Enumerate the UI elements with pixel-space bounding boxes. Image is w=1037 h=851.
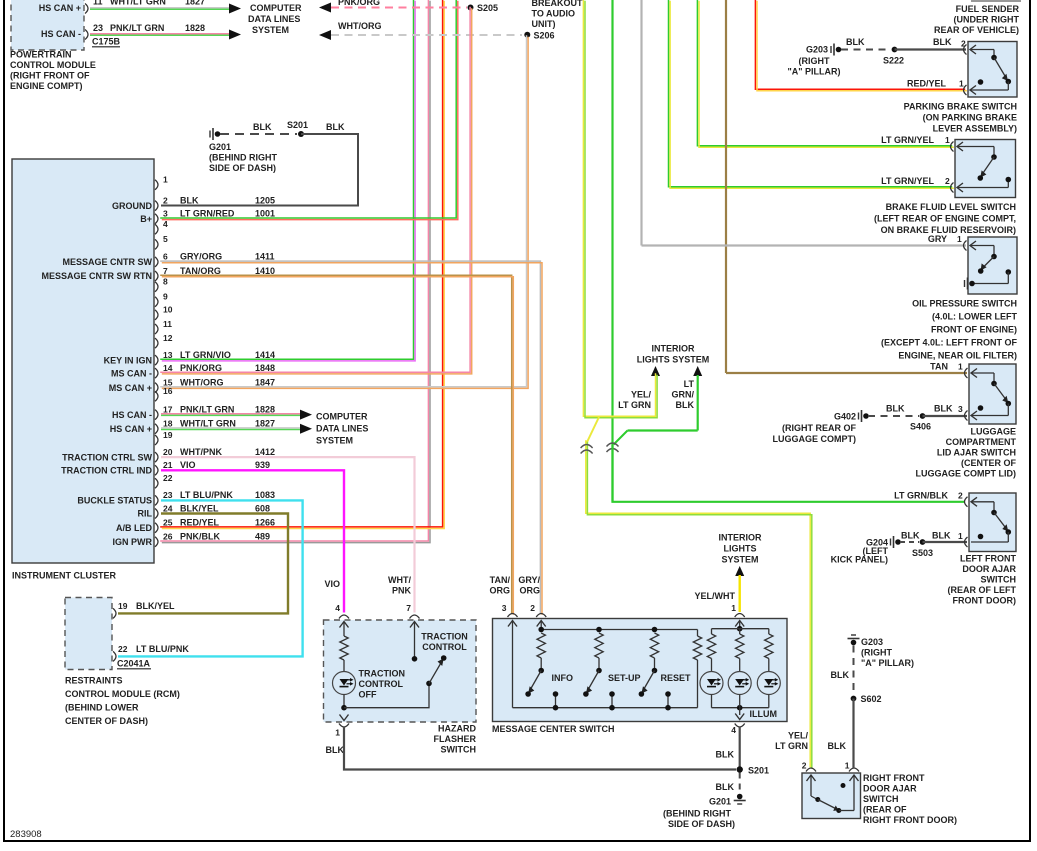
svg-text:19: 19 xyxy=(118,601,128,611)
svg-text:POWERTRAIN: POWERTRAIN xyxy=(10,50,72,60)
wire RED/YEL trunk to parking brake pin 1 xyxy=(755,0,965,89)
svg-text:HS CAN -: HS CAN - xyxy=(41,29,81,39)
svg-text:1: 1 xyxy=(958,362,963,372)
svg-text:1205: 1205 xyxy=(255,195,275,205)
svg-text:REAR OF VEHICLE): REAR OF VEHICLE) xyxy=(934,25,1019,35)
svg-text:RIGHT FRONT DOOR): RIGHT FRONT DOOR) xyxy=(863,815,957,825)
svg-text:1: 1 xyxy=(335,728,340,738)
svg-text:5: 5 xyxy=(163,234,168,244)
cluster pin 13 xyxy=(155,355,158,365)
svg-text:UNIT): UNIT) xyxy=(532,19,556,29)
svg-text:24: 24 xyxy=(163,503,173,513)
splice S205 xyxy=(468,5,474,11)
wire LT GRN/BLK branch to interior lights xyxy=(693,366,702,376)
svg-text:ORG: ORG xyxy=(489,586,510,596)
svg-text:1266: 1266 xyxy=(255,518,275,528)
cluster pin 2 xyxy=(155,201,158,211)
wire GRY to oil pressure pin 1 xyxy=(642,244,967,246)
svg-text:GRY: GRY xyxy=(928,234,947,244)
msg fixed resistor branch xyxy=(693,636,701,660)
svg-text:PNK/BLK: PNK/BLK xyxy=(180,532,220,542)
svg-text:3: 3 xyxy=(502,603,507,613)
svg-text:YEL/: YEL/ xyxy=(631,390,652,400)
svg-text:1828: 1828 xyxy=(185,23,205,33)
splice S201 (lower) xyxy=(737,766,743,772)
hazard internals: LED branch xyxy=(340,622,349,628)
svg-text:BLK/YEL: BLK/YEL xyxy=(136,601,175,611)
svg-text:WHT/LT GRN: WHT/LT GRN xyxy=(110,0,166,7)
cropped box fragment top right xyxy=(971,0,1021,2)
wire TAN trunk to luggage switch pin 1 xyxy=(725,0,727,373)
svg-text:KEY IN IGN: KEY IN IGN xyxy=(104,355,152,365)
msg switch SET-UP xyxy=(596,627,602,633)
svg-text:KICK PANEL): KICK PANEL) xyxy=(831,555,888,565)
svg-text:OIL PRESSURE SWITCH: OIL PRESSURE SWITCH xyxy=(912,299,1017,309)
wire pin20 WHT/PNK to hazard pin 7 xyxy=(161,457,415,612)
svg-text:2: 2 xyxy=(945,176,950,186)
svg-text:YEL/: YEL/ xyxy=(788,731,809,741)
svg-text:A/B LED: A/B LED xyxy=(116,523,153,533)
svg-text:HAZARD: HAZARD xyxy=(438,724,476,734)
msg illumination LEDs xyxy=(735,621,744,627)
cluster pin 9 xyxy=(155,297,158,307)
svg-text:1847: 1847 xyxy=(255,377,275,387)
svg-text:SYSTEM: SYSTEM xyxy=(252,25,289,35)
wire RED/YEL trunk + pin 25 xyxy=(160,0,442,527)
svg-text:ENGINE, NEAR OIL FILTER): ENGINE, NEAR OIL FILTER) xyxy=(898,351,1017,361)
svg-text:S201: S201 xyxy=(748,766,769,776)
svg-text:TRACTION CTRL IND: TRACTION CTRL IND xyxy=(61,466,152,476)
svg-text:PNK/ORG: PNK/ORG xyxy=(338,0,380,7)
svg-text:BLK: BLK xyxy=(326,122,345,132)
border frame xyxy=(3,0,5,841)
svg-text:BLK: BLK xyxy=(676,400,695,410)
cluster pin 3 xyxy=(155,214,158,224)
door switch internals xyxy=(807,775,816,781)
left front door switch box xyxy=(969,493,1016,552)
luggage switch box xyxy=(969,364,1016,424)
msg LED at x=711.5 xyxy=(711,629,713,634)
svg-text:2: 2 xyxy=(958,491,963,501)
hazard pin 1 xyxy=(340,715,349,721)
svg-text:7: 7 xyxy=(163,266,168,276)
hazard flasher switch box xyxy=(324,620,477,722)
svg-text:939: 939 xyxy=(255,460,270,470)
svg-text:S201: S201 xyxy=(287,120,308,130)
svg-text:TAN/ORG: TAN/ORG xyxy=(180,266,221,276)
brake fluid internals xyxy=(957,142,963,151)
svg-text:G402: G402 xyxy=(834,412,856,422)
svg-text:FRONT DOOR): FRONT DOOR) xyxy=(953,596,1017,606)
svg-text:PNK: PNK xyxy=(392,586,412,596)
oil pressure internal ground xyxy=(964,280,966,287)
msg ILLUM output pin 4 xyxy=(739,708,741,715)
svg-text:SWITCH: SWITCH xyxy=(863,794,899,804)
svg-text:1410: 1410 xyxy=(255,266,275,276)
wire BLK S503 to door pin 1 xyxy=(923,541,968,543)
svg-text:FUEL SENDER: FUEL SENDER xyxy=(956,4,1020,14)
svg-text:RESET: RESET xyxy=(661,673,692,683)
breakout to audio unit riser xyxy=(31,0,529,1)
svg-text:1828: 1828 xyxy=(255,404,275,414)
svg-text:(BEHIND RIGHT: (BEHIND RIGHT xyxy=(663,809,731,819)
wire pin18 WHT/LT GRN to arrow xyxy=(161,427,300,429)
svg-text:G203: G203 xyxy=(861,637,883,647)
svg-text:2: 2 xyxy=(802,761,807,771)
svg-text:TRACTION CTRL SW: TRACTION CTRL SW xyxy=(62,452,152,462)
svg-text:S406: S406 xyxy=(910,422,931,432)
msg switch INFO xyxy=(538,627,544,633)
svg-text:RED/YEL: RED/YEL xyxy=(180,518,220,528)
ground G201 (behind right side of dash) xyxy=(209,131,211,138)
splice S503 xyxy=(920,539,926,545)
wire WHT/ORG dashed to S206 xyxy=(319,30,331,40)
svg-text:BLK: BLK xyxy=(326,745,345,755)
svg-text:LEFT FRONT: LEFT FRONT xyxy=(960,554,1016,564)
svg-text:GRY/ORG: GRY/ORG xyxy=(180,252,222,262)
svg-text:(CENTER OF: (CENTER OF xyxy=(961,458,1017,468)
svg-text:11: 11 xyxy=(93,0,103,7)
svg-text:26: 26 xyxy=(163,532,173,542)
cluster pin 18 xyxy=(155,424,158,434)
svg-text:PNK/LT GRN: PNK/LT GRN xyxy=(110,23,164,33)
svg-text:BREAKOUT: BREAKOUT xyxy=(532,0,584,8)
svg-text:S222: S222 xyxy=(883,56,904,66)
svg-text:BLK: BLK xyxy=(886,404,905,414)
svg-text:23: 23 xyxy=(93,23,103,33)
svg-text:G201: G201 xyxy=(709,797,731,807)
svg-text:LT GRN/RED: LT GRN/RED xyxy=(180,209,235,219)
svg-text:LIGHTS SYSTEM: LIGHTS SYSTEM xyxy=(637,355,710,365)
cluster pin 14 xyxy=(155,368,158,378)
svg-text:ORG: ORG xyxy=(519,586,540,596)
svg-text:INFO: INFO xyxy=(552,673,574,683)
svg-text:GRY/: GRY/ xyxy=(518,575,540,585)
svg-text:LID AJAR SWITCH: LID AJAR SWITCH xyxy=(937,448,1016,458)
svg-text:BLK: BLK xyxy=(831,670,850,680)
svg-text:BLK: BLK xyxy=(180,195,199,205)
svg-text:CONTROL MODULE: CONTROL MODULE xyxy=(10,60,96,70)
svg-text:LUGGAGE COMPT LID): LUGGAGE COMPT LID) xyxy=(916,469,1017,479)
cluster pin 12 xyxy=(155,338,158,348)
svg-text:TAN: TAN xyxy=(930,362,948,372)
svg-text:ILLUM: ILLUM xyxy=(750,709,778,719)
svg-text:LT GRN/YEL: LT GRN/YEL xyxy=(881,176,934,186)
svg-text:1: 1 xyxy=(945,135,950,145)
svg-text:ENGINE COMPT): ENGINE COMPT) xyxy=(10,81,83,91)
svg-text:FLASHER: FLASHER xyxy=(434,734,477,744)
svg-text:14: 14 xyxy=(163,363,173,373)
svg-text:TRACTION: TRACTION xyxy=(421,632,468,642)
svg-text:10: 10 xyxy=(163,305,173,315)
svg-text:VIO: VIO xyxy=(180,460,196,470)
svg-text:BLK: BLK xyxy=(846,37,865,47)
svg-text:LIGHTS: LIGHTS xyxy=(724,544,757,554)
wire LT GRN/YEL trunk to brake fluid pin 1 xyxy=(697,0,952,146)
svg-text:(RIGHT: (RIGHT xyxy=(799,56,830,66)
svg-text:HS CAN +: HS CAN + xyxy=(39,3,81,13)
wire LT GRN/RED trunk + pin 3 xyxy=(160,0,456,218)
splice S206 xyxy=(524,32,530,38)
cluster pin 10 xyxy=(155,310,158,320)
svg-text:SWITCH: SWITCH xyxy=(441,745,477,755)
svg-text:16: 16 xyxy=(163,386,173,396)
wire BLK dashed G201 to S201 xyxy=(220,133,297,135)
svg-text:BLK: BLK xyxy=(253,122,272,132)
svg-text:WHT/: WHT/ xyxy=(388,575,411,585)
svg-text:(LEFT REAR OF ENGINE COMPT,: (LEFT REAR OF ENGINE COMPT, xyxy=(874,214,1016,224)
cluster pin 24 xyxy=(155,509,158,519)
RCM pin 22 xyxy=(113,651,116,661)
svg-text:1848: 1848 xyxy=(255,363,275,373)
svg-text:CONTROL: CONTROL xyxy=(359,679,404,689)
svg-text:DOOR AJAR: DOOR AJAR xyxy=(962,564,1016,574)
wire BLK hazard pin1 to S201 xyxy=(344,727,736,770)
svg-text:1: 1 xyxy=(959,79,964,89)
wire PNK/ORG from S205 to pin 14 xyxy=(160,7,470,373)
cluster pin 1 xyxy=(155,180,158,190)
svg-text:S602: S602 xyxy=(861,694,882,704)
oil pressure switch box xyxy=(968,237,1017,294)
svg-text:22: 22 xyxy=(118,644,128,654)
svg-text:RIL: RIL xyxy=(138,509,153,519)
svg-text:BRAKE FLUID LEVEL SWITCH: BRAKE FLUID LEVEL SWITCH xyxy=(886,202,1016,212)
wire LT GRN/BLK trunk to left front door switch xyxy=(611,0,613,502)
svg-text:12: 12 xyxy=(163,333,173,343)
svg-text:1827: 1827 xyxy=(185,0,205,7)
svg-text:3: 3 xyxy=(163,209,168,219)
svg-text:G201: G201 xyxy=(209,142,231,152)
svg-text:BLK: BLK xyxy=(933,37,952,47)
svg-text:BLK: BLK xyxy=(901,531,920,541)
svg-text:LT GRN/BLK: LT GRN/BLK xyxy=(894,491,948,501)
svg-text:HS CAN +: HS CAN + xyxy=(110,424,152,434)
svg-text:LT BLU/PNK: LT BLU/PNK xyxy=(180,490,233,500)
svg-text:C175B: C175B xyxy=(92,37,121,47)
svg-text:ON BRAKE FLUID RESERVOIR): ON BRAKE FLUID RESERVOIR) xyxy=(881,225,1016,235)
hazard internals: switch xyxy=(344,683,429,707)
svg-text:9: 9 xyxy=(163,292,168,302)
svg-text:25: 25 xyxy=(163,518,173,528)
splice S602 xyxy=(851,696,857,702)
svg-text:MESSAGE CENTER SWITCH: MESSAGE CENTER SWITCH xyxy=(492,724,615,734)
svg-text:1: 1 xyxy=(731,603,736,613)
svg-text:(BEHIND LOWER: (BEHIND LOWER xyxy=(65,703,139,713)
svg-text:WHT/PNK: WHT/PNK xyxy=(180,447,222,457)
svg-text:SYSTEM: SYSTEM xyxy=(316,436,353,446)
wire BLK dashed G203 to S602 xyxy=(853,646,855,695)
svg-text:SET-UP: SET-UP xyxy=(608,673,641,683)
svg-text:(EXCEPT 4.0L: LEFT FRONT OF: (EXCEPT 4.0L: LEFT FRONT OF xyxy=(881,338,1018,348)
svg-text:CONTROL MODULE (RCM): CONTROL MODULE (RCM) xyxy=(65,689,180,699)
svg-text:13: 13 xyxy=(163,350,173,360)
RCM pin 19 xyxy=(113,608,116,618)
svg-text:GRN/: GRN/ xyxy=(672,390,695,400)
svg-text:MS CAN -: MS CAN - xyxy=(111,368,152,378)
svg-text:1827: 1827 xyxy=(255,419,275,429)
svg-text:TAN/: TAN/ xyxy=(490,575,511,585)
msg LED at x=768.8 xyxy=(768,629,770,634)
svg-text:WHT/ORG: WHT/ORG xyxy=(180,377,224,387)
svg-text:HS CAN -: HS CAN - xyxy=(112,410,152,420)
svg-text:21: 21 xyxy=(163,460,173,470)
svg-text:COMPUTER: COMPUTER xyxy=(316,412,368,422)
instrument cluster box xyxy=(12,159,154,563)
msg internals: pin2 feed rail xyxy=(537,621,546,627)
svg-text:MESSAGE CNTR SW: MESSAGE CNTR SW xyxy=(62,257,152,267)
svg-text:(RIGHT REAR OF: (RIGHT REAR OF xyxy=(782,423,856,433)
wire YEL/WHT msg pin1 to interior lights xyxy=(735,566,744,576)
svg-text:RESTRAINTS: RESTRAINTS xyxy=(65,676,123,686)
wire BLK dashed G402 to S406 xyxy=(868,415,919,417)
svg-text:"A" PILLAR): "A" PILLAR) xyxy=(787,67,840,77)
msg internals: pin3 return rail xyxy=(508,621,517,627)
svg-text:7: 7 xyxy=(406,603,411,613)
svg-text:WHT/LT GRN: WHT/LT GRN xyxy=(180,419,236,429)
cluster pin 8 xyxy=(155,282,158,292)
svg-text:SYSTEM: SYSTEM xyxy=(721,555,758,565)
svg-text:MESSAGE CNTR SW RTN: MESSAGE CNTR SW RTN xyxy=(41,271,152,281)
cluster pin 7 xyxy=(155,271,158,281)
wire LT GRN/BLK down to left front door pin 2 xyxy=(613,445,966,502)
svg-text:BLK: BLK xyxy=(716,782,735,792)
wire PNK/BLK trunk + pin 26 xyxy=(160,0,428,541)
svg-text:BLK: BLK xyxy=(828,741,847,751)
svg-text:BUCKLE STATUS: BUCKLE STATUS xyxy=(77,496,152,506)
svg-text:LUGGAGE: LUGGAGE xyxy=(970,427,1016,437)
msg switch RESET xyxy=(652,627,658,633)
svg-text:SIDE OF DASH): SIDE OF DASH) xyxy=(209,163,276,173)
svg-text:PNK/ORG: PNK/ORG xyxy=(180,363,222,373)
svg-text:RED/YEL: RED/YEL xyxy=(907,79,947,89)
powertrain control module box xyxy=(11,0,84,50)
svg-text:4: 4 xyxy=(163,219,168,229)
svg-text:(REAR OF: (REAR OF xyxy=(863,805,907,815)
svg-text:TO AUDIO: TO AUDIO xyxy=(532,9,576,19)
svg-text:LEVER ASSEMBLY): LEVER ASSEMBLY) xyxy=(933,124,1017,134)
svg-text:INTERIOR: INTERIOR xyxy=(718,533,762,543)
oil pressure internals xyxy=(970,241,976,250)
splice S222 xyxy=(892,47,898,53)
svg-text:PNK/LT GRN: PNK/LT GRN xyxy=(180,404,234,414)
cluster pin 23 xyxy=(155,495,158,505)
svg-text:OFF: OFF xyxy=(359,690,377,700)
svg-text:1: 1 xyxy=(163,175,168,185)
svg-text:BLK: BLK xyxy=(716,750,735,760)
svg-text:BLK/YEL: BLK/YEL xyxy=(180,503,219,513)
svg-text:(UNDER RIGHT: (UNDER RIGHT xyxy=(954,15,1020,25)
svg-text:2: 2 xyxy=(530,603,535,613)
svg-text:BLK: BLK xyxy=(932,531,951,541)
svg-text:LT: LT xyxy=(684,379,695,389)
wire LT GRN/VIO trunk + pin 13 xyxy=(160,0,413,359)
svg-text:1412: 1412 xyxy=(255,447,275,457)
svg-text:1: 1 xyxy=(845,761,850,771)
svg-text:MS CAN +: MS CAN + xyxy=(109,383,152,393)
svg-text:17: 17 xyxy=(163,404,173,414)
cluster pin 21 xyxy=(155,465,158,475)
svg-text:IGN PWR: IGN PWR xyxy=(113,537,153,547)
svg-text:PARKING BRAKE SWITCH: PARKING BRAKE SWITCH xyxy=(904,102,1017,112)
svg-text:(BEHIND RIGHT: (BEHIND RIGHT xyxy=(209,153,277,163)
message center switch box xyxy=(493,619,788,722)
ground G201 (lower) xyxy=(737,794,743,800)
svg-text:1083: 1083 xyxy=(255,490,275,500)
wire GRY trunk to oil pressure switch xyxy=(640,0,642,246)
cluster pin 6 xyxy=(155,257,158,267)
svg-text:3: 3 xyxy=(958,404,963,414)
wire pin23 LT BLU/PNK to RCM pin 22 xyxy=(118,500,303,656)
cluster pin 22 xyxy=(155,478,158,488)
wire WHT/ORG from S206 to pin 15 xyxy=(160,35,526,387)
luggage internals xyxy=(971,369,977,378)
svg-text:YEL/WHT: YEL/WHT xyxy=(695,591,736,601)
svg-text:1414: 1414 xyxy=(255,350,275,360)
svg-text:11: 11 xyxy=(163,319,172,329)
svg-text:2: 2 xyxy=(961,39,966,49)
svg-text:1: 1 xyxy=(957,234,962,244)
svg-text:22: 22 xyxy=(163,473,173,483)
wire pin6 GRY/ORG to message center pin 2 xyxy=(160,261,540,613)
svg-text:2: 2 xyxy=(163,195,168,205)
svg-text:INTERIOR: INTERIOR xyxy=(651,344,695,354)
wire pin24 BLK/YEL to RCM pin 19 xyxy=(118,514,288,614)
svg-text:283908: 283908 xyxy=(10,829,42,840)
svg-text:CONTROL: CONTROL xyxy=(422,642,467,652)
cluster pin 20 xyxy=(155,452,158,462)
svg-text:19: 19 xyxy=(163,430,173,440)
svg-text:DATA LINES: DATA LINES xyxy=(248,14,300,24)
svg-text:LUGGAGE COMPT): LUGGAGE COMPT) xyxy=(773,434,857,444)
svg-text:489: 489 xyxy=(255,532,270,542)
svg-text:1: 1 xyxy=(958,531,963,541)
cluster pin 11 xyxy=(155,324,158,334)
svg-text:RIGHT FRONT: RIGHT FRONT xyxy=(863,773,925,783)
svg-text:4: 4 xyxy=(731,725,736,735)
wire BLK S406 to luggage pin 3 xyxy=(923,415,968,417)
splice S406 xyxy=(920,413,926,419)
wire YEL/LT GRN branch to interior lights xyxy=(651,366,660,376)
svg-text:COMPUTER: COMPUTER xyxy=(250,3,302,13)
svg-text:LT BLU/PNK: LT BLU/PNK xyxy=(136,644,189,654)
svg-text:8: 8 xyxy=(163,277,168,287)
svg-text:COMPARTMENT: COMPARTMENT xyxy=(946,437,1017,447)
svg-text:DATA LINES: DATA LINES xyxy=(316,424,368,434)
cluster pin 4 xyxy=(155,224,158,234)
svg-text:S205: S205 xyxy=(477,3,498,13)
cluster pin 25 xyxy=(155,523,158,533)
cluster pin 16 xyxy=(155,391,158,401)
svg-text:4: 4 xyxy=(335,603,340,613)
cluster pin 5 xyxy=(155,239,158,249)
brake fluid level switch box xyxy=(955,140,1016,198)
svg-text:(4.0L: LOWER LEFT: (4.0L: LOWER LEFT xyxy=(932,312,1017,322)
cluster pin 15 xyxy=(155,383,158,393)
wire YEL/LT GRN diagonal + down to door xyxy=(587,417,599,443)
wire BLK msg pin4 to S201 xyxy=(739,727,741,767)
svg-text:LT GRN/YEL: LT GRN/YEL xyxy=(881,135,934,145)
wire LT GRN/YEL trunk to brake fluid pin 2 xyxy=(669,0,953,187)
svg-text:(REAR OF LEFT: (REAR OF LEFT xyxy=(948,585,1017,595)
svg-text:608: 608 xyxy=(255,503,270,513)
svg-text:TRACTION: TRACTION xyxy=(359,669,406,679)
svg-text:(RIGHT: (RIGHT xyxy=(861,648,892,658)
restraints control module box xyxy=(65,598,112,670)
parking brake internals xyxy=(970,45,976,54)
svg-text:FRONT OF ENGINE): FRONT OF ENGINE) xyxy=(931,325,1017,335)
wire BLK dashed G204 to S503 xyxy=(900,541,919,543)
svg-text:DOOR AJAR: DOOR AJAR xyxy=(863,784,917,794)
